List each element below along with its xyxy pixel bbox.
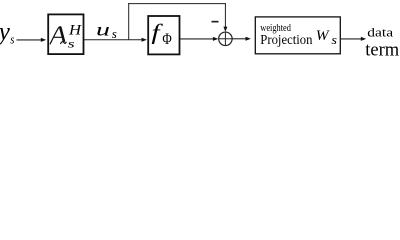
wire U2 to adder [180, 37, 218, 41]
wire feedback branch up [128, 3, 130, 40]
svg-text:data: data [367, 26, 393, 40]
svg-text:W: W [316, 28, 330, 44]
wire input arrow into U1 [17, 38, 47, 42]
label f_Phi inside U2 [151, 20, 171, 49]
label weighted / Projection inside U3 [260, 23, 312, 47]
label W_s inside U3 [316, 28, 337, 46]
svg-text:s: s [112, 27, 117, 41]
label A_s^H inside U1 [50, 22, 82, 50]
wire adder to U3 [232, 37, 251, 41]
svg-text:y: y [0, 19, 11, 46]
wire feedback drop into adder [223, 3, 227, 32]
svg-text:H: H [68, 22, 83, 38]
svg-text:Φ: Φ [162, 31, 171, 48]
block U2 proximal operator box [148, 16, 179, 54]
svg-text:s: s [68, 37, 75, 50]
node y_s input label [0, 19, 15, 47]
svg-text:u: u [96, 20, 110, 40]
adder sum junction [219, 32, 233, 46]
wire U1 to U2 [84, 38, 147, 42]
block U3 weighted projection box [255, 17, 340, 54]
svg-text:Projection: Projection [260, 32, 312, 47]
svg-text:s: s [331, 33, 337, 47]
node u_s label [96, 20, 117, 40]
wire output arrow [341, 37, 367, 41]
minus sign at adder input [212, 21, 219, 23]
svg-text:term: term [365, 39, 399, 58]
svg-text:s: s [10, 33, 15, 47]
block U1 adjoint operator box [48, 14, 83, 54]
node data term output label [365, 26, 399, 61]
wire feedback top run [128, 3, 226, 5]
